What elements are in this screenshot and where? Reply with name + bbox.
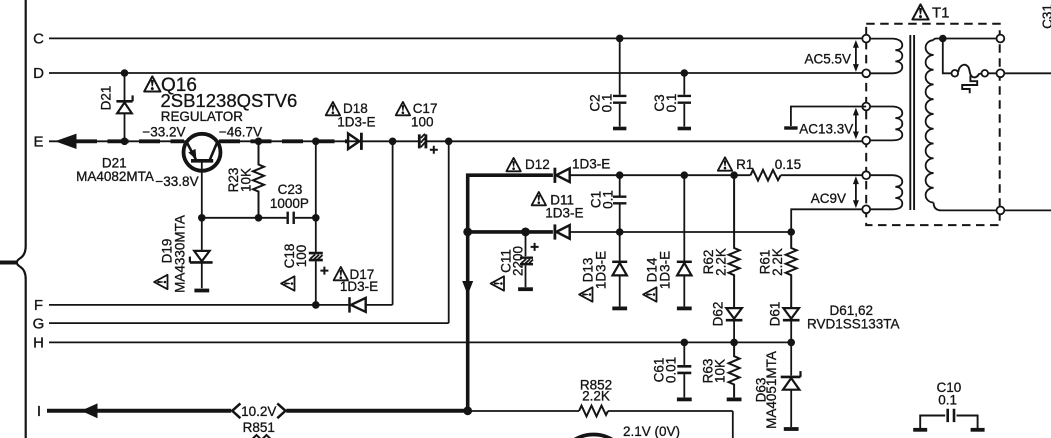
pin T1 primary AC9V top <box>862 171 870 179</box>
resistor R62 chain <box>729 175 740 307</box>
winding primary AC13.3V <box>869 107 902 141</box>
capacitor C18 (polarized) <box>315 218 317 252</box>
svg-text:REGULATOR: REGULATOR <box>161 109 243 124</box>
ground bar C3 <box>678 127 691 131</box>
svg-text:2.1V (0V): 2.1V (0V) <box>623 424 680 438</box>
pin T1 primary AC5.5V top <box>862 35 870 43</box>
svg-text:0.1: 0.1 <box>938 392 957 407</box>
node bold vertical on line I <box>463 406 472 415</box>
ground bar C10 right <box>971 428 985 432</box>
ground bar D63 <box>784 428 799 430</box>
wire line E <box>49 140 862 142</box>
svg-text:−46.7V: −46.7V <box>219 125 262 140</box>
capacitor C3 <box>683 73 685 95</box>
svg-text:R1: R1 <box>736 157 753 172</box>
transistor Q16 emitter arrow <box>188 149 196 160</box>
svg-text:MA4082MTA: MA4082MTA <box>76 169 154 184</box>
ground bar D14 <box>677 307 692 309</box>
thermal fuse chassis staircase <box>962 76 977 94</box>
pin T1 primary AC5.5V bottom <box>862 69 870 77</box>
svg-text:100: 100 <box>411 115 434 130</box>
svg-text:10.2V: 10.2V <box>241 404 276 419</box>
diode D13 <box>619 232 621 261</box>
capacitor C1 <box>619 175 621 195</box>
svg-text:1D3-E: 1D3-E <box>337 115 375 130</box>
SECTION: capacitors C2 C3 <box>613 38 691 126</box>
node dot C3 on line D <box>681 69 689 77</box>
pin T1 primary AC13.3V bottom <box>862 137 870 145</box>
wire D12 row thin <box>570 174 863 176</box>
svg-text:1D3-E: 1D3-E <box>657 251 672 289</box>
resistor R1 <box>751 170 781 181</box>
wire AC9V bottom to D11 row <box>791 209 862 232</box>
resistor R63 <box>729 342 740 397</box>
wire line G <box>49 141 449 323</box>
svg-text:10K: 10K <box>712 359 727 383</box>
transistor Q16 <box>184 134 221 171</box>
node bold corner on D11 row <box>463 228 472 237</box>
capacitor C11 (polarized) <box>525 232 527 256</box>
resistor R23 <box>253 141 264 218</box>
wire line I bold mid <box>286 409 467 413</box>
ground bar C61 <box>677 398 692 400</box>
winding primary AC5.5V <box>869 39 902 74</box>
diode D14 (crosses D11 row) <box>683 175 685 261</box>
SECTION: capacitor C10 bottom right <box>920 409 977 429</box>
pin T1 primary AC13.3V top <box>862 103 870 111</box>
label Q16 <box>144 76 160 91</box>
svg-text:D61: D61 <box>767 302 782 327</box>
svg-text:0.15: 0.15 <box>775 157 801 172</box>
svg-text:C31: C31 <box>1040 4 1051 29</box>
svg-text:R851: R851 <box>243 420 275 435</box>
node F branch on line E <box>389 138 397 146</box>
label D11 1D3-E with warning <box>532 192 546 205</box>
svg-text:1D3-E: 1D3-E <box>545 205 583 220</box>
svg-text:0.1: 0.1 <box>664 94 679 113</box>
diode D17 on line F <box>348 297 351 312</box>
wire secondary top to right terminal <box>943 38 1001 40</box>
left border frame with brace jog <box>17 0 26 438</box>
resistor R851 zigzag tip at bottom edge <box>252 435 272 438</box>
capacitor C2 <box>619 38 621 94</box>
node dot secondary top <box>939 35 947 43</box>
SECTION: rectifier middle <box>468 168 863 438</box>
diode D12 <box>554 168 557 183</box>
node C11 top on D11 row <box>521 228 530 237</box>
node C1 bottom D13 top on D11 row <box>616 228 624 236</box>
label T1 with warning <box>912 4 928 19</box>
svg-text:2.2K: 2.2K <box>713 248 728 276</box>
svg-text:AC5.5V: AC5.5V <box>804 51 851 66</box>
pin T1 thermal fuse out <box>997 69 1005 77</box>
node D21 anode on line D <box>121 69 129 77</box>
svg-text:1D3-E: 1D3-E <box>340 279 378 294</box>
node arrow on line E <box>55 134 77 149</box>
node test point 10.2V chevrons <box>232 403 285 418</box>
pin T1 secondary top right <box>997 35 1005 43</box>
node arrow down on bold vertical <box>462 281 473 295</box>
node G branch on line E <box>445 138 453 146</box>
svg-text:1D3-E: 1D3-E <box>572 157 610 172</box>
node D62 R63 on line H <box>730 339 738 347</box>
node D21 cathode on line E <box>121 138 129 146</box>
node R23 top on line E <box>255 138 263 146</box>
svg-text:D21: D21 <box>98 86 113 111</box>
svg-text:2.2K: 2.2K <box>582 389 610 404</box>
node C18 bottom on line F <box>312 301 320 309</box>
label R1 0.15 with warning <box>718 157 732 170</box>
svg-text:1000P: 1000P <box>270 196 309 211</box>
ground bar C10 left <box>913 428 927 432</box>
resistor R61 chain <box>786 232 797 307</box>
winding secondary <box>934 39 943 41</box>
svg-text:C: C <box>33 31 44 48</box>
capacitor C17 (polarized) on line E <box>419 134 426 148</box>
resistor R852 on line I <box>579 406 608 417</box>
svg-text:MA4051MTA: MA4051MTA <box>764 351 779 429</box>
diode D11 <box>554 224 557 239</box>
node C61 top on line H <box>681 339 689 347</box>
svg-text:MA4330MTA: MA4330MTA <box>172 215 187 293</box>
svg-text:−33.2V: −33.2V <box>142 125 185 140</box>
node C1 top on D12 row <box>616 171 624 179</box>
node D14 branch on D12 row <box>681 171 689 179</box>
diode D62 <box>726 308 742 319</box>
wire line F <box>49 141 393 305</box>
diode D21 (zener) <box>124 73 126 100</box>
svg-text:G: G <box>33 315 45 332</box>
node R61 top on D11 row <box>787 228 795 236</box>
labels left section <box>76 75 437 294</box>
wire line E bold dashes <box>76 139 184 143</box>
svg-text:T1: T1 <box>932 4 950 21</box>
svg-text:F: F <box>34 297 43 314</box>
node Q16 base junction <box>198 214 206 222</box>
label C17 100 with warning <box>396 102 410 115</box>
node C18 branch on line E <box>312 138 320 146</box>
node dot C2 on line C <box>616 35 624 43</box>
SECTION: left regulator <box>116 73 437 313</box>
svg-text:D: D <box>33 65 44 82</box>
node R23 bottom <box>255 214 263 222</box>
node R62 branch / R1 left on D12 row <box>730 171 738 179</box>
pin T1 primary AC9V bottom <box>862 205 870 213</box>
ground bar C11 <box>518 288 533 290</box>
svg-text:E: E <box>33 134 43 151</box>
wire bold stub into brace point <box>0 261 16 265</box>
labels middle section <box>491 94 900 438</box>
svg-text:10K: 10K <box>238 168 253 192</box>
transistor circle arc bottom edge <box>557 435 631 438</box>
label D17 1D3-E with warning <box>334 267 348 280</box>
pin T1 secondary bottom right <box>997 207 1005 215</box>
fuse contact circles <box>952 70 959 77</box>
svg-text:1D3-E: 1D3-E <box>593 251 608 289</box>
svg-text:2200: 2200 <box>510 246 525 276</box>
diode D19 (zener) <box>201 218 203 250</box>
label D12 1D3-E with warning <box>506 158 520 171</box>
wire line I thin right with corner down <box>468 411 733 438</box>
wire C23 row <box>202 217 316 219</box>
transformer T1 dashed box <box>866 24 1000 225</box>
node D61 D63 on line H <box>787 339 795 347</box>
wire AC13.3V top to chassis <box>791 107 866 127</box>
wire line D <box>49 72 862 74</box>
svg-text:I: I <box>37 403 41 420</box>
svg-text:100: 100 <box>294 245 309 268</box>
wire thermal fuse branch <box>943 39 952 74</box>
diode D61 <box>783 308 799 319</box>
svg-text:D62: D62 <box>710 302 725 327</box>
wire bold D12 row + vertical down to line I <box>468 175 553 411</box>
node C23 right junction <box>312 214 320 222</box>
winding primary AC9V <box>869 175 902 209</box>
thermal fuse wiggle <box>958 65 981 78</box>
ground bar D13 <box>612 307 627 309</box>
svg-text:AC9V: AC9V <box>811 191 846 206</box>
wire D11 row thin <box>570 231 792 233</box>
ground bar D19 <box>194 290 209 292</box>
wire bold D11 row <box>468 230 553 234</box>
diode D63 (zener) <box>790 342 792 375</box>
svg-text:D12: D12 <box>525 157 550 172</box>
ground bar C2 <box>613 127 626 131</box>
capacitor C61 <box>683 342 685 365</box>
wire line C <box>49 37 862 39</box>
svg-text:0.1: 0.1 <box>599 94 614 113</box>
wire line I bold left <box>47 409 231 413</box>
diode D18 on line E <box>348 134 359 150</box>
SECTION: transformer T1 <box>866 24 1051 225</box>
svg-text:AC13.3V: AC13.3V <box>799 121 853 136</box>
wire line H <box>49 341 791 343</box>
svg-text:0.01: 0.01 <box>663 357 678 383</box>
svg-text:−33.8V: −33.8V <box>155 174 198 189</box>
capacitor C10 <box>920 416 977 430</box>
capacitor C23 <box>288 212 294 224</box>
svg-text:H: H <box>33 335 44 352</box>
svg-text:2.2K: 2.2K <box>770 248 785 276</box>
wire fuse to right terminal <box>988 72 1051 74</box>
transformer core <box>910 35 914 210</box>
svg-text:RVD1SS133TA: RVD1SS133TA <box>807 317 900 332</box>
ground bar AC13.3V <box>784 126 797 129</box>
ground bar R63 <box>727 398 742 400</box>
node arrow on line I <box>81 403 98 418</box>
label D18 1D3-E with warning <box>326 102 340 115</box>
wire E to C23 row at x=315.8 <box>315 141 317 218</box>
svg-text:2SB1238QSTV6: 2SB1238QSTV6 <box>161 90 298 111</box>
svg-text:0.1: 0.1 <box>600 190 615 209</box>
